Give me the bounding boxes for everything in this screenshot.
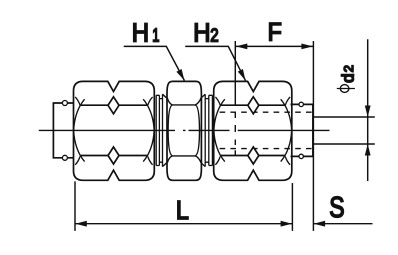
label phi-d2 rotated: phi symbol drawn as ellipse + bar: [340, 85, 349, 93]
F and S extension line right: [312, 41, 314, 231]
L dimension line: [75, 223, 292, 225]
phi-d2 top arrow: [365, 106, 371, 118]
left nut top diamond: [108, 97, 119, 114]
tube stub left (inserted tube with break circles): [53, 103, 73, 158]
H2 label underline and leader: [185, 46, 245, 80]
H1 leader arrowhead: [176, 69, 184, 81]
left nut band lines: [81, 105, 147, 155]
F extension line left: [234, 41, 236, 105]
left nut chamfer arc right: [143, 99, 154, 161]
tube break circle left-bottom: [62, 155, 67, 160]
right nut top diamond: [248, 97, 259, 114]
right nut chamfer arc right: [281, 99, 292, 161]
L and S extension line x=292.4: [291, 183, 293, 231]
L extension line left: [74, 181, 76, 231]
L left arrow: [75, 221, 87, 227]
svg-text:2: 2: [210, 25, 218, 45]
tube break circle right-bottom: [299, 154, 303, 158]
F right arrow: [301, 44, 313, 50]
tube break circle left-top: [62, 101, 67, 106]
right nut chamfer arc left: [214, 99, 225, 161]
H2 leader arrowhead: [238, 69, 246, 81]
svg-text:H: H: [193, 17, 210, 47]
tube break circle right-top: [299, 102, 303, 106]
phi-d2 extension lines: [313, 117, 375, 144]
spacer B between body and right nut: [201, 94, 206, 166]
S right arrow: [314, 221, 326, 227]
right nut bottom diamond: [248, 147, 259, 164]
right nut corner arcs: [215, 97, 290, 165]
body hex corner connectors: [167, 98, 201, 162]
centerline: [39, 129, 330, 131]
body hex H1 outline: [167, 81, 201, 180]
left nut chamfer arc left: [74, 99, 85, 161]
svg-text:1: 1: [152, 25, 159, 45]
F left arrow: [236, 44, 248, 50]
arrowheads: [75, 44, 370, 227]
spacer A between left nut and body: [156, 95, 159, 165]
hidden hole dashed lines in right nut: [216, 112, 312, 156]
S dimension line: [313, 223, 372, 225]
H1 label underline and leader: [124, 46, 185, 80]
body hex face: [168, 105, 199, 156]
right nut band lines: [221, 105, 285, 155]
left nut corner arcs: [75, 97, 152, 165]
L right arrow: [281, 221, 293, 227]
svg-text:S: S: [329, 192, 344, 224]
svg-text:d: d: [339, 73, 358, 82]
svg-text:H: H: [132, 17, 149, 47]
phi-d2 dimension line: [367, 39, 369, 181]
F dimension line: [235, 45, 313, 47]
right nut outline: [214, 81, 292, 180]
tube stub right: [291, 104, 313, 156]
dimension lines: [75, 39, 375, 231]
svg-text:L: L: [176, 195, 189, 225]
hidden hole bottom dashed vertical: [234, 112, 236, 156]
svg-text:F: F: [268, 18, 282, 46]
spacer A diagonal caps: [162, 94, 167, 166]
left nut outline: [74, 81, 155, 180]
left nut bottom diamond: [108, 147, 119, 164]
svg-text:2: 2: [341, 65, 356, 72]
phi-d2 bottom arrow: [365, 144, 371, 156]
